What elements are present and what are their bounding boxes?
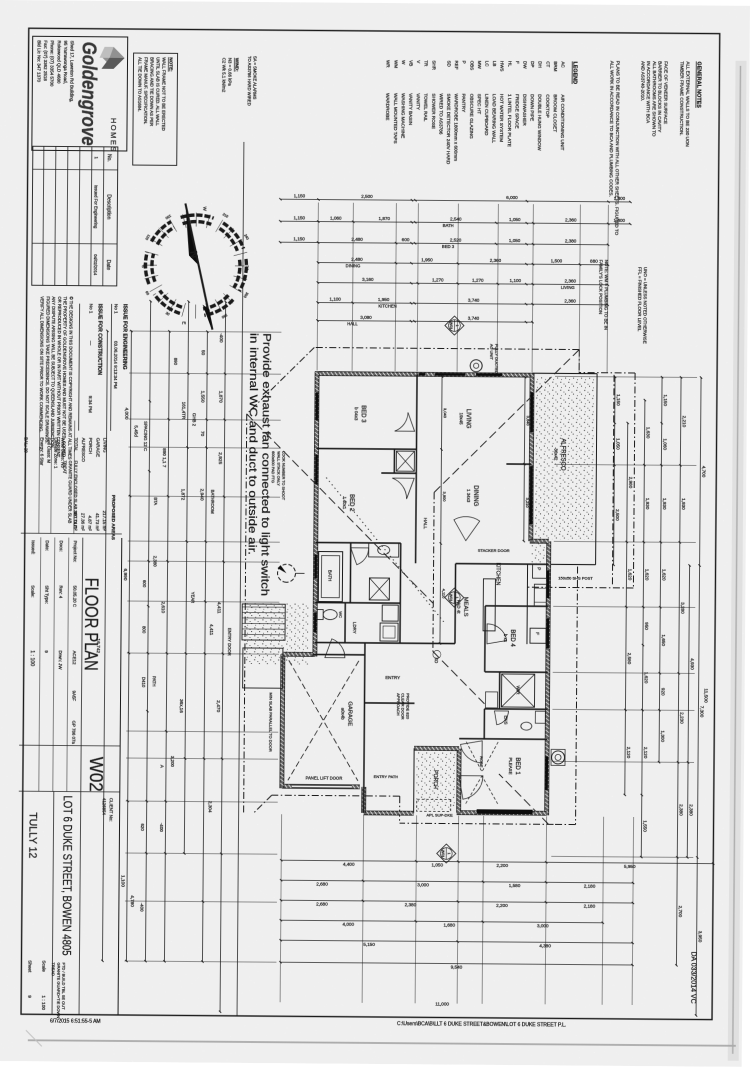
right dimension strings bbox=[281, 860, 713, 863]
ens fixtures bbox=[535, 711, 545, 723]
window bed1 front large bbox=[477, 809, 533, 814]
top witness lines bbox=[555, 376, 697, 377]
exterior wall right bbox=[457, 811, 547, 816]
window living left 2 bbox=[419, 373, 425, 376]
window bath bottom bbox=[314, 554, 317, 578]
kitchen bench bbox=[526, 564, 529, 644]
washing machine bbox=[382, 605, 398, 621]
section marker right bbox=[437, 844, 456, 863]
exterior wall left bbox=[315, 373, 534, 375]
alfresco right edge bbox=[549, 563, 596, 565]
wir robe X bbox=[501, 674, 534, 707]
garage bottom wall bbox=[282, 654, 283, 788]
bed2/bed3 partition bbox=[316, 447, 416, 450]
exterior wall top-right bbox=[547, 541, 549, 815]
stacker door window on top wall bbox=[529, 466, 532, 524]
bottom overall dim bbox=[102, 331, 107, 961]
pantry bbox=[532, 564, 546, 578]
exterior wall bottom (bedrooms) bbox=[315, 372, 317, 657]
alfresco stipple bbox=[532, 376, 595, 539]
revision table bbox=[32, 146, 118, 286]
window wc bottom bbox=[314, 612, 317, 632]
shower bed area bbox=[485, 692, 497, 708]
bath tub bbox=[318, 552, 342, 602]
fan circle symbol below house bbox=[277, 564, 295, 582]
alfresco roof outline bbox=[579, 372, 635, 374]
garage left wall bbox=[283, 652, 315, 656]
living window top wall bbox=[530, 392, 533, 432]
hall right wall bbox=[315, 642, 455, 643]
left chain double ticks bbox=[526, 200, 528, 202]
wir/ens walls bbox=[498, 672, 500, 709]
dotted diagonal hall bbox=[325, 478, 446, 624]
roof overhang outline bbox=[314, 347, 579, 349]
door bed1 bbox=[460, 741, 482, 763]
left dimension strings bbox=[280, 199, 630, 202]
garage door opening bbox=[292, 784, 352, 788]
wc suite bbox=[323, 610, 337, 620]
section marker left bbox=[445, 316, 464, 335]
bottom dimension strings bbox=[220, 302, 226, 1012]
door garage-house bbox=[325, 639, 345, 658]
exterior wall right lower / garage right bbox=[364, 811, 414, 815]
bed4 walls bbox=[485, 605, 548, 607]
window bed4 top bbox=[546, 618, 549, 648]
porch recess walls bbox=[457, 749, 461, 813]
water tank rect bbox=[243, 648, 283, 688]
window kitchen top bbox=[547, 570, 550, 598]
garage ceiling diagonals bbox=[288, 660, 359, 781]
roof ridge line bbox=[433, 492, 434, 651]
title bar divider 2 bbox=[19, 790, 120, 793]
porch step dashes bbox=[417, 799, 451, 811]
scanner page top edge band bbox=[728, 61, 747, 1061]
door bed4 bbox=[487, 624, 507, 644]
hws unit bbox=[552, 751, 565, 764]
alfresco top edge bbox=[596, 374, 598, 565]
interior dim chain beds bbox=[524, 377, 525, 541]
porch stipple bbox=[416, 751, 455, 809]
bracing note box bbox=[133, 53, 178, 165]
porch roofline bbox=[400, 823, 554, 824]
bottom witness lines bbox=[129, 331, 281, 332]
window bed3 left bbox=[476, 373, 502, 376]
exterior wall top-left (living) bbox=[531, 373, 532, 541]
logo cube icon bbox=[102, 47, 124, 69]
garage front wall bbox=[282, 784, 360, 788]
title bar top rule bbox=[118, 538, 122, 1015]
title bar divider 1 bbox=[19, 744, 120, 747]
right witness lines bbox=[632, 817, 633, 1005]
alfresco left post wall bbox=[532, 372, 597, 375]
window bed1 top bbox=[545, 756, 548, 790]
bed2 robe bbox=[396, 451, 414, 471]
hall wall (beds zone top) bbox=[416, 374, 417, 563]
fridge bbox=[530, 628, 546, 643]
kitchen island bbox=[483, 579, 495, 631]
window living left bbox=[435, 373, 465, 376]
vanity bbox=[369, 543, 399, 557]
door bath bbox=[351, 548, 369, 565]
door alfresco-living bbox=[454, 517, 480, 541]
laundry tub bbox=[380, 623, 398, 641]
interior dim chain hall bbox=[440, 376, 442, 643]
garage/house wall bbox=[313, 653, 365, 655]
bed1 wall bbox=[459, 738, 547, 741]
window bed2 bottom bbox=[315, 454, 318, 484]
ac pad stipple bbox=[245, 602, 309, 665]
scanner page right edge shadow bbox=[28, 1040, 736, 1046]
top dimension strings bbox=[696, 378, 701, 1016]
roof hip lines bbox=[245, 414, 434, 603]
door bed3 bbox=[395, 412, 415, 431]
door front entry bbox=[459, 776, 483, 800]
entry/hall walls near porch bbox=[364, 643, 365, 813]
garage front step wall bbox=[362, 787, 366, 813]
living/dining divider (nib) bbox=[506, 463, 531, 465]
kitchen-meals wall bbox=[456, 563, 549, 566]
linen cupboard X bbox=[369, 578, 389, 600]
bath cluster left wall bbox=[316, 541, 401, 544]
ac circle symbol bbox=[470, 360, 482, 372]
title strip divider bbox=[237, 142, 244, 1016]
scanner page top edge shadow bbox=[733, 66, 741, 1054]
door ens bbox=[494, 711, 508, 725]
logo box bbox=[32, 36, 128, 151]
door bed2 bbox=[392, 478, 414, 499]
left witness lines bbox=[607, 205, 608, 373]
window bed3 bottom bbox=[316, 392, 319, 420]
north compass bbox=[154, 294, 180, 313]
bed1 robe dashed chevrons bbox=[482, 742, 498, 772]
ac pad steps bands bbox=[242, 606, 285, 608]
bath/laundry partition walls bbox=[399, 543, 402, 643]
bed2 robe wall bbox=[393, 449, 395, 473]
title bar rule mid bbox=[79, 538, 83, 1015]
section marker hall bbox=[445, 588, 464, 607]
